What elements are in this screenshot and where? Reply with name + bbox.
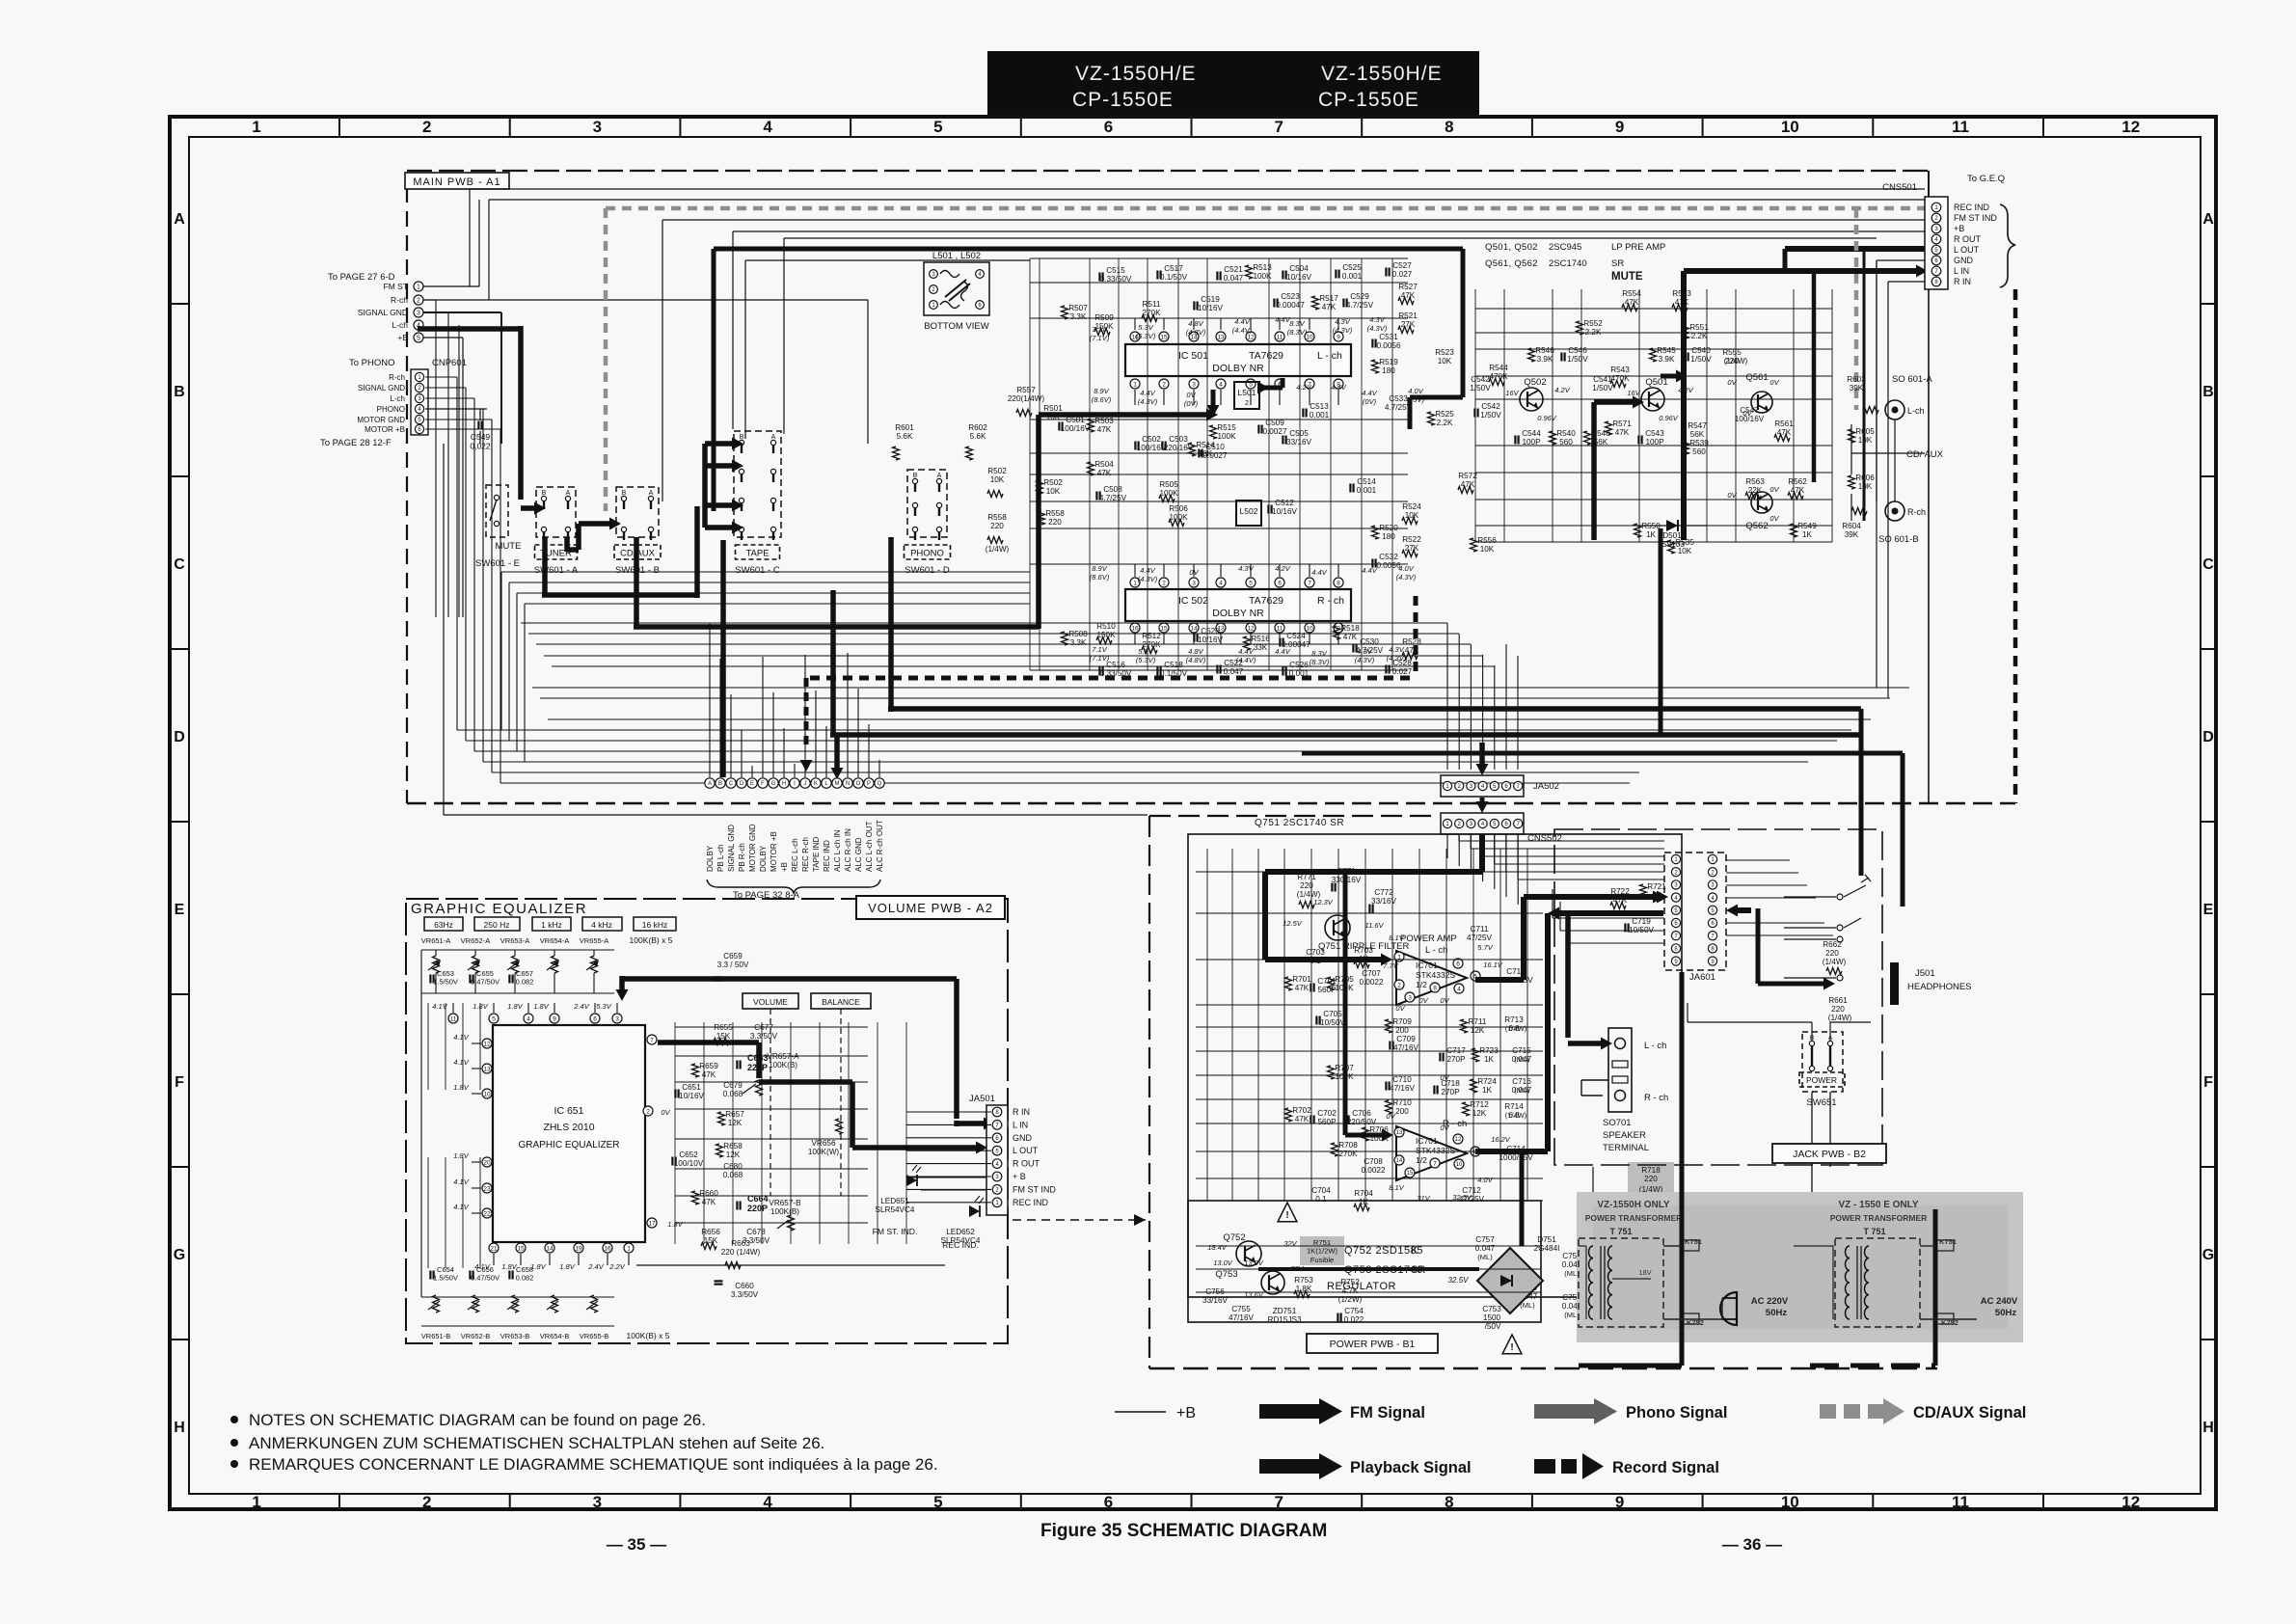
svg-text:VR651-B: VR651-B [421,1332,450,1340]
svg-text:(8.6V): (8.6V) [1090,573,1110,582]
svg-text:C651: C651 [682,1083,701,1092]
thick outline dolby block [714,247,1463,252]
power inner box [1188,834,1682,1297]
svg-text:R601: R601 [895,423,914,432]
svg-text:100K(B): 100K(B) [770,1207,799,1216]
svg-text:R OUT: R OUT [1954,234,1982,244]
svg-text:R572: R572 [1458,472,1477,480]
svg-text:3.9K: 3.9K [1659,355,1675,364]
svg-text:C660: C660 [735,1282,754,1290]
svg-text:Q753: Q753 [1215,1269,1237,1280]
connector CNP601 [411,369,428,435]
svg-text:GND: GND [1013,1133,1033,1143]
svg-text:R540: R540 [1556,429,1576,438]
svg-text:R711: R711 [1469,1017,1487,1026]
wire upper mid [784,237,1877,239]
svg-text:4.4V: 4.4V [1311,568,1327,577]
svg-text:1500: 1500 [1483,1313,1501,1322]
svg-text:17: 17 [648,1220,656,1227]
wire L-ch heavy FM signal [418,326,521,332]
transformer T751 right [1835,1238,1920,1327]
svg-text:POWER: POWER [1806,1075,1837,1085]
svg-text:VZ-1550H ONLY: VZ-1550H ONLY [1597,1200,1670,1210]
svg-text:100/10V: 100/10V [674,1159,704,1168]
svg-text:IC 501: IC 501 [1178,350,1208,362]
svg-text:C713: C713 [1506,967,1526,976]
svg-text:AC 240V: AC 240V [1981,1296,2018,1307]
svg-text:2: 2 [646,1108,650,1115]
svg-text:47K: 47K [1405,646,1419,655]
svg-text:C664: C664 [747,1194,769,1204]
svg-text:4.2V: 4.2V [1275,564,1290,573]
svg-text:K: K [814,781,818,787]
svg-text:R563: R563 [1745,477,1765,486]
bottom potentiometer row [433,1295,440,1313]
svg-text:AC 220V: AC 220V [1751,1296,1789,1307]
svg-text:1.8V: 1.8V [559,1262,575,1271]
svg-text:47/16V: 47/16V [1229,1313,1254,1322]
bracket to G.E.Q [2000,204,2015,287]
legend FM Signal arrow [1259,1404,1321,1419]
svg-text:R702: R702 [1292,1106,1311,1115]
svg-text:4.0V: 4.0V [1477,1176,1493,1184]
svg-text:0V: 0V [1769,514,1779,523]
svg-text:C533: C533 [1389,394,1408,403]
svg-text:C513: C513 [1310,402,1329,411]
svg-text:10: 10 [1306,625,1313,632]
svg-text:7: 7 [650,1037,654,1043]
FM signal heavy path into TUNER [534,502,546,515]
svg-text:Q501, Q502: Q501, Q502 [1485,242,1538,253]
heavy to JA501 L OUT [850,1082,855,1148]
svg-text:3: 3 [593,118,602,136]
svg-text:VR652-A: VR652-A [461,936,490,945]
FM heavy path TUNER to bus [542,537,548,595]
svg-text:5: 5 [417,336,420,342]
svg-text:2.4V: 2.4V [587,1262,604,1271]
svg-text:(4.3V): (4.3V) [1396,573,1417,582]
svg-text:R544: R544 [1489,364,1508,372]
svg-text:1.8V: 1.8V [507,1002,523,1011]
svg-text:TA7629: TA7629 [1249,595,1283,607]
svg-text:0.0022: 0.0022 [1359,978,1383,987]
svg-text:9: 9 [1615,1493,1624,1511]
svg-text:220: 220 [1831,1005,1845,1014]
svg-text:2: 2 [1397,982,1401,988]
svg-text:+B: +B [397,333,408,342]
svg-text:1/2: 1/2 [1416,1155,1427,1165]
svg-text:33/16V: 33/16V [1286,438,1311,447]
svg-text:180: 180 [1382,366,1395,375]
svg-text:3.9K: 3.9K [1537,355,1553,364]
svg-text:15K: 15K [716,1032,731,1041]
heavy to JA601 L return arrow [1559,910,1663,916]
svg-text:(4.8V): (4.8V) [1186,656,1206,664]
svg-text:ALC L-ch OUT: ALC L-ch OUT [865,821,874,872]
svg-text:10K: 10K [1046,487,1061,496]
svg-text:47K: 47K [1295,984,1310,992]
svg-text:15K: 15K [704,1236,718,1245]
svg-text:R543: R543 [1610,365,1630,374]
svg-text:C772: C772 [1374,888,1393,897]
svg-text:C531: C531 [1379,333,1398,341]
svg-text:(4.4V): (4.4V) [1236,656,1256,664]
notes bullet 1 [230,1416,238,1423]
svg-text:1 kHz: 1 kHz [541,920,562,930]
svg-text:G: G [174,1247,185,1263]
svg-text:A: A [566,490,571,497]
IC501 pins bottom [1130,379,1140,389]
svg-text:R724: R724 [1477,1077,1497,1086]
svg-text:C706: C706 [1352,1109,1371,1118]
transistor Q562 [1751,492,1772,513]
svg-text:1/50V: 1/50V [1567,355,1588,364]
svg-text:4.3V: 4.3V [1389,645,1404,654]
svg-text:0.0056: 0.0056 [1376,561,1400,570]
svg-text:R558: R558 [987,513,1007,522]
svg-text:10: 10 [1781,118,1799,136]
GRAPHIC EQUALIZER board outline [406,899,1008,1343]
switch TUNER SW601-A [536,487,576,537]
svg-text:270P: 270P [1446,1055,1466,1064]
wire to CNS501 pin2 FM ST IND [489,199,1925,201]
heavy headphone feed [1756,908,1761,984]
svg-text:0.0027: 0.0027 [1262,427,1286,436]
svg-text:4.3V: 4.3V [1238,564,1254,573]
svg-text:12K: 12K [1472,1109,1487,1118]
svg-text:R527: R527 [1398,283,1418,291]
heavy arrow down into pin J [804,678,809,748]
svg-text:C523: C523 [1281,292,1300,301]
svg-text:22: 22 [483,1210,491,1217]
svg-text:VOLUME PWB - A2: VOLUME PWB - A2 [868,901,993,915]
svg-text:15: 15 [1160,334,1168,340]
svg-text:VR654-B: VR654-B [540,1332,569,1340]
resistor R604 [1851,508,1867,515]
svg-text:16V: 16V [1505,389,1519,397]
svg-text:IC 651: IC 651 [554,1105,584,1117]
svg-text:0V: 0V [1440,1073,1449,1082]
svg-text:220P: 220P [747,1063,768,1072]
svg-text:4.3V): 4.3V) [1407,395,1424,404]
svg-text:13.0V: 13.0V [1244,1259,1264,1267]
svg-text:R502: R502 [987,467,1007,475]
svg-text:1/50V: 1/50V [1470,384,1491,392]
svg-text:3: 3 [593,1493,602,1511]
svg-text:SO 601-B: SO 601-B [1878,534,1919,545]
svg-text:R547: R547 [1688,421,1707,430]
svg-text:12: 12 [1247,625,1255,632]
svg-text:(7.1V): (7.1V) [1090,334,1110,342]
title block VZ-1550H/E CP-1550E [987,51,1479,115]
svg-text:5.3V: 5.3V [1138,323,1153,332]
svg-text:3.3K: 3.3K [1070,638,1087,647]
svg-text:REC R-ch: REC R-ch [801,837,810,872]
svg-text:POWER PWB - B1: POWER PWB - B1 [1330,1339,1416,1350]
svg-text:C543: C543 [1645,429,1664,438]
svg-text:8.9V: 8.9V [1092,564,1107,573]
svg-text:(4.3V): (4.3V) [1333,326,1353,335]
warning triangle 4 [1502,1335,1522,1354]
svg-text:D: D [2202,729,2214,745]
svg-text:1: 1 [417,284,420,291]
VR657-B pot [788,1215,795,1231]
heavy mute vertical [1812,271,1817,482]
svg-text:Q561, Q562: Q561, Q562 [1485,258,1538,269]
svg-text:10/16V: 10/16V [1272,507,1297,516]
svg-text:4: 4 [1457,986,1461,992]
svg-text:ZD751: ZD751 [1273,1307,1297,1315]
svg-text:BALANCE: BALANCE [822,997,860,1007]
svg-text:6: 6 [1278,580,1282,586]
svg-text:FM ST: FM ST [384,282,409,291]
svg-text:4.1V: 4.1V [453,1203,469,1211]
svg-text:18V: 18V [1638,1268,1651,1277]
svg-text:R704: R704 [1354,1189,1373,1198]
svg-text:SW601 - E: SW601 - E [475,558,520,569]
svg-text:T 751: T 751 [1863,1227,1885,1236]
svg-text:1.8V: 1.8V [453,1151,469,1160]
svg-text:(4.3V): (4.3V) [1367,324,1388,333]
svg-text:VR654-A: VR654-A [540,936,569,945]
VR657-A pot [756,1080,763,1096]
svg-text:R662: R662 [1823,940,1842,949]
relay contact box right bottom [1936,1313,1954,1324]
svg-text:REGULATOR: REGULATOR [1327,1281,1396,1292]
grid column ticks top [338,117,340,137]
svg-text:POWER TRANSFORMER: POWER TRANSFORMER [1830,1213,1928,1223]
svg-text:12: 12 [1455,1137,1462,1143]
svg-text:1/2: 1/2 [1416,980,1427,989]
svg-text:47K: 47K [1613,896,1628,905]
svg-text:12K: 12K [1471,1026,1485,1035]
svg-text:DOLBY: DOLBY [759,845,768,872]
bus wires horizontal [521,622,1447,624]
headphone jack J501 contacts [1784,896,1836,898]
svg-text:0.47/50V: 0.47/50V [471,1274,500,1283]
svg-text:47/16V: 47/16V [1390,1084,1415,1093]
MAIN PWB-A1 board outline [407,170,1929,172]
svg-text:2: 2 [1245,400,1249,407]
svg-text:B: B [740,434,744,441]
dashed link JA501 to power board [1013,1219,1146,1221]
svg-text:1.8V: 1.8V [667,1220,683,1229]
svg-text:15: 15 [1160,625,1168,632]
svg-text:4.4V: 4.4V [1140,389,1155,397]
svg-text:4.4V: 4.4V [1238,647,1254,656]
L OUT heavy trace top [714,247,1463,252]
svg-text:STK4332S: STK4332S [1416,970,1455,980]
svg-text:MUTE: MUTE [496,541,522,552]
svg-text:4.4V: 4.4V [1140,566,1155,575]
svg-text:11.6V: 11.6V [1364,921,1384,930]
svg-text:32.5V: 32.5V [1448,1276,1470,1285]
svg-text:0.00047: 0.00047 [1276,301,1305,310]
svg-text:L IN: L IN [1013,1120,1028,1129]
svg-text:— 35 —: — 35 — [607,1535,666,1554]
svg-text:1.8V: 1.8V [473,1002,488,1011]
resistor R557 [1016,410,1032,417]
svg-text:POWER TRANSFORMER: POWER TRANSFORMER [1585,1213,1683,1223]
svg-text:SPEAKER: SPEAKER [1603,1130,1646,1141]
svg-text:R525: R525 [1435,410,1454,419]
AC plug symbol [1720,1292,1737,1325]
svg-text:270K: 270K [1142,309,1161,317]
svg-text:0.1/50V: 0.1/50V [1160,273,1188,282]
svg-text:C518: C518 [1164,661,1183,669]
svg-text:(4.4V): (4.4V) [1232,326,1253,335]
MAIN PWB-A1 label [405,173,509,189]
svg-text:0.001: 0.001 [1289,669,1310,678]
transistor Q502 [1520,388,1543,411]
svg-text:R508: R508 [1068,630,1088,638]
svg-text:27K: 27K [1401,320,1416,329]
svg-text:8.3V: 8.3V [1289,319,1305,328]
svg-text:/50V: /50V [1485,1322,1501,1331]
svg-text:(8.6V): (8.6V) [1092,395,1112,404]
svg-text:To PAGE 28 12-F: To PAGE 28 12-F [320,438,392,448]
svg-text:15: 15 [1407,1171,1414,1177]
svg-text:3: 3 [417,311,420,317]
svg-text:0.001: 0.001 [1357,486,1377,495]
svg-text:D: D [174,729,185,745]
svg-text:C703: C703 [1306,948,1325,957]
svg-text:Q751 2SC1740 SR: Q751 2SC1740 SR [1255,818,1344,828]
svg-text:5: 5 [492,1015,496,1022]
svg-text:PB R-ch: PB R-ch [738,843,746,872]
svg-text:6: 6 [593,1015,597,1022]
svg-text:L - ch: L - ch [1317,350,1342,362]
svg-text:D: D [740,781,744,787]
svg-text:13: 13 [1217,334,1225,340]
dolby block components [1062,306,1068,319]
relay contact box left top [1682,1240,1699,1251]
svg-text:3: 3 [1192,580,1196,586]
svg-text:1000/35V: 1000/35V [1499,976,1533,985]
svg-text:R - ch: R - ch [1644,1093,1668,1103]
FM heavy arrow into Q501 base [1591,402,1597,540]
svg-text:8.1V: 8.1V [1389,1183,1404,1192]
svg-text:7.1V: 7.1V [1092,645,1107,654]
svg-text:200: 200 [1395,1107,1409,1116]
svg-text:E: E [750,781,754,787]
svg-text:0V: 0V [1189,568,1199,577]
svg-text:B: B [542,490,547,497]
notes bullet 2 [230,1439,238,1447]
svg-text:REC IND: REC IND [823,840,831,872]
record signal dashed vertical right [2013,289,2018,803]
svg-text:C532: C532 [1379,553,1398,561]
svg-text:PHONO: PHONO [910,549,944,559]
legend Phono Signal arrow [1534,1404,1596,1419]
svg-text:O: O [856,781,861,787]
svg-text:R519: R519 [1379,358,1398,366]
svg-text:100K(B) x 5: 100K(B) x 5 [627,1331,670,1340]
svg-text:— 36 —: — 36 — [1722,1535,1782,1554]
svg-text:H: H [174,1420,185,1436]
grid row ticks right [2201,303,2216,305]
svg-text:CP-1550E: CP-1550E [1072,89,1174,111]
wire to CNS501 pin6 GND [745,259,1030,261]
warning triangle 1 [1278,1203,1297,1222]
svg-text:VR657-A: VR657-A [767,1052,799,1061]
heavy vertical to pin row B [720,540,726,777]
svg-text:(4.3V): (4.3V) [1387,654,1407,663]
svg-text:16V: 16V [1627,389,1640,397]
svg-text:10/16V: 10/16V [1286,273,1311,282]
IC501 TA7629 L-ch DOLBY NR [1125,344,1351,376]
svg-text:12: 12 [2121,1493,2140,1511]
resistor R602 [966,447,973,460]
svg-text:200: 200 [1395,1026,1409,1035]
svg-text:BOTTOM VIEW: BOTTOM VIEW [924,321,988,332]
svg-text:STK4332S: STK4332S [1416,1146,1455,1155]
svg-text:5.6K: 5.6K [897,432,913,441]
svg-text:47K: 47K [1322,303,1337,311]
svg-text:C755: C755 [1231,1305,1251,1313]
svg-text:5.6K: 5.6K [970,432,986,441]
svg-text:C753: C753 [1482,1305,1501,1313]
svg-text:C702: C702 [1317,1109,1337,1118]
svg-text:SIGNAL GND: SIGNAL GND [358,308,408,317]
svg-text:2: 2 [422,1493,431,1511]
svg-text:NOTES ON SCHEMATIC DIAGRAM can: NOTES ON SCHEMATIC DIAGRAM can be found … [249,1411,706,1429]
svg-text:150K: 150K [1096,631,1116,639]
svg-text:C677: C677 [754,1023,773,1032]
IC502 pins bottom [1130,623,1140,633]
svg-text:REC IND: REC IND [1013,1198,1049,1207]
svg-text:4.2V: 4.2V [1296,383,1311,392]
heavy trace into power amp [1479,834,1485,872]
switch TAPE SW601-C [734,431,781,537]
svg-text:0.47/50V: 0.47/50V [471,978,500,987]
svg-text:4: 4 [763,118,772,136]
svg-text:VR655-A: VR655-A [580,936,608,945]
svg-text:C546: C546 [1568,346,1587,355]
svg-text:0.027: 0.027 [1392,270,1413,279]
svg-text:MOTOR GND: MOTOR GND [357,416,405,424]
R718 fusible gray label [1628,1162,1674,1203]
svg-text:(ML): (ML) [1477,1253,1493,1261]
svg-text:C529: C529 [1350,292,1369,301]
legend Playback Signal arrow [1259,1459,1321,1474]
svg-text:C710: C710 [1392,1075,1412,1084]
svg-text:C711: C711 [1471,925,1489,934]
svg-text:0.96V: 0.96V [1537,414,1557,422]
svg-text:JA501: JA501 [969,1094,995,1104]
svg-text:R511: R511 [1143,300,1161,309]
svg-text:0.1: 0.1 [1315,1195,1327,1204]
svg-text:TAPE IND: TAPE IND [812,836,821,872]
legend CD/AUX Signal arrow [1820,1404,1836,1419]
svg-text:TA7629: TA7629 [1249,350,1283,362]
svg-text:C704: C704 [1311,1186,1331,1195]
heavy vertical tape out [830,590,836,735]
wires CNP601 to bus [425,376,457,378]
svg-text:4: 4 [1219,381,1223,388]
svg-text:R661: R661 [1828,996,1848,1005]
wires CNS502 to JA601 [1458,834,1460,841]
switch POWER SW651 [1802,1032,1843,1092]
resistor R601 [893,447,900,460]
svg-text:R554: R554 [1622,289,1641,298]
svg-text:DOLBY NR: DOLBY NR [1212,363,1264,374]
svg-text:R604: R604 [1842,522,1861,530]
svg-text:L IN: L IN [1954,266,1969,276]
svg-text:+ B: + B [1013,1172,1026,1181]
svg-text:C508: C508 [1103,485,1122,494]
wires JA601 right to jack [1726,859,1790,861]
